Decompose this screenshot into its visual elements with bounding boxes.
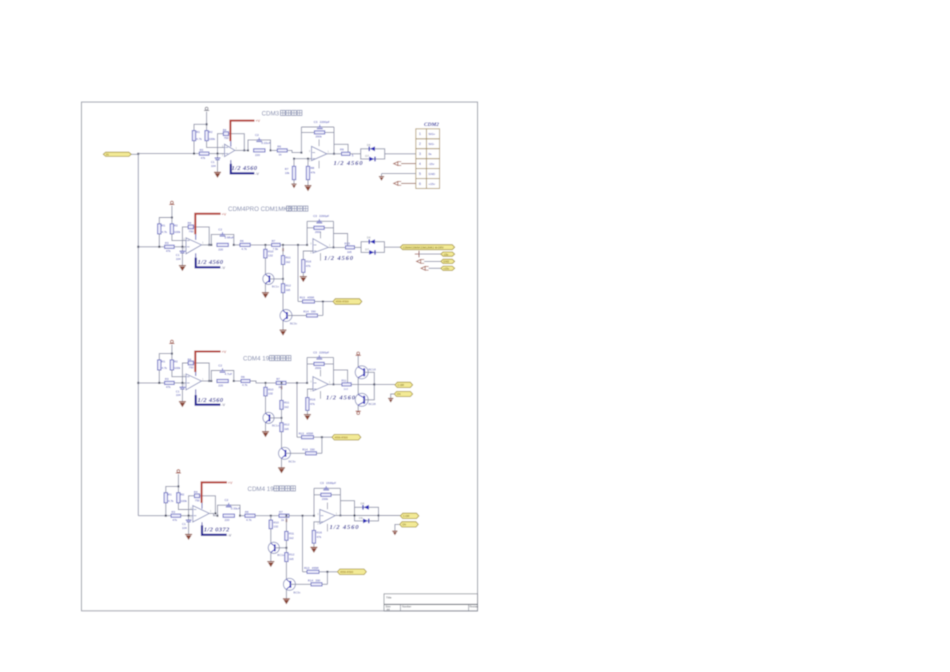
svg-text:4556-R500: 4556-R500: [336, 300, 350, 304]
svg-text:R16: R16: [317, 530, 323, 534]
node RC loop landing section3: [233, 380, 235, 382]
svg-text:CDM2: CDM2: [424, 122, 439, 128]
wire Q1 base section4: [275, 547, 287, 549]
diode clamp box section4: [355, 507, 379, 521]
wire bus corner to section4 rail: [138, 515, 171, 517]
svg-text:1k2: 1k2: [286, 260, 291, 264]
wire feedback2 res line section4: [314, 494, 340, 496]
wire rail across section4: [255, 515, 279, 517]
node input bus junction: [137, 153, 139, 155]
svg-text:1k5: 1k5: [286, 288, 291, 292]
svg-text:1k2: 1k2: [289, 536, 294, 540]
wire feedback2 right vertical section2: [333, 221, 335, 247]
ground gain network section3: [304, 414, 311, 420]
svg-text:R2: R2: [209, 130, 213, 134]
wire R15 to diode box section2: [355, 246, 362, 248]
wire rail into op-amp section2: [174, 246, 186, 248]
node divider left section1: [293, 158, 295, 160]
wire op-amp2 output to R15 section2: [328, 246, 345, 248]
svg-text:0.22uF: 0.22uF: [261, 141, 271, 145]
svg-text:47k: 47k: [166, 249, 171, 253]
svg-text:R16: R16: [306, 260, 312, 264]
capacitor C3 2200pF section1: [317, 125, 323, 129]
wire RC to R6 section1: [271, 149, 278, 151]
svg-text:BC3x: BC3x: [293, 590, 301, 594]
wire port2 to ground section3: [391, 394, 395, 398]
wire feedback2 left vertical section2: [306, 221, 308, 245]
port C-DRIVE section3: [395, 382, 413, 387]
svg-text:R15: R15: [345, 242, 351, 246]
wire V+ pin stub section3: [195, 372, 197, 376]
op-amp U1A section1: [222, 144, 238, 157]
node R1 rail junction section1: [193, 153, 195, 155]
svg-text:R3: R3: [200, 148, 204, 152]
node mid chain section2: [282, 244, 284, 246]
svg-text:455R: 455R: [312, 566, 319, 570]
svg-text:R16: R16: [310, 398, 316, 402]
wire input port to bus: [131, 153, 138, 156]
connector CDM2 table: [416, 129, 440, 189]
resistor R9 section1: [342, 152, 351, 155]
resistor R12 1k5 section4: [285, 553, 288, 562]
ground R8 section1: [305, 185, 312, 191]
svg-text:BC1x: BC1x: [272, 423, 280, 427]
ground gain network section2: [300, 276, 307, 282]
node feedback tap section1: [217, 153, 219, 155]
wire feedback2 res line section2: [307, 227, 333, 229]
svg-text:6: 6: [419, 182, 421, 186]
wire rail across section2: [250, 244, 271, 246]
svg-text:4.7k: 4.7k: [162, 366, 168, 370]
resistor R5 section3: [217, 379, 228, 382]
wire power stem section2: [171, 206, 173, 224]
svg-text:C3: C3: [313, 350, 317, 354]
wire +V red supply section3: [195, 352, 220, 373]
wire R1 bottom to input rail section1: [193, 141, 195, 154]
svg-text:220: 220: [255, 153, 260, 157]
ground gain network section4: [310, 547, 317, 553]
transistor Q1 BC1xx section4: [268, 542, 279, 553]
svg-text:GND: GND: [428, 172, 436, 176]
svg-text:750: 750: [224, 136, 229, 140]
svg-text:R7: R7: [279, 510, 283, 514]
svg-text:C3: C3: [313, 214, 317, 218]
op-amp U1B section1: [309, 146, 330, 162]
node RC loop junction section2: [210, 244, 212, 246]
diode clamp box section2: [361, 242, 384, 253]
ground under C1 section1: [214, 172, 221, 178]
svg-text:R9: R9: [340, 148, 344, 152]
resistor R1 4.7k section2: [158, 224, 161, 234]
wire feedback2 right vertical section4: [339, 488, 341, 515]
wire R1 top to R2 stem section1: [194, 124, 207, 130]
wire base node down section4: [285, 548, 287, 553]
svg-text:5: 5: [419, 172, 421, 176]
resistor R14b 330 section2: [307, 314, 318, 317]
svg-text:R2: R2: [174, 360, 178, 364]
node op-amp2 output junction section3: [333, 383, 335, 385]
op-amp U1A section4: [190, 506, 212, 522]
resistor R7b 1k section3: [276, 381, 286, 384]
wire +V red supply section4: [202, 482, 227, 503]
svg-text:4.7k: 4.7k: [241, 247, 247, 251]
wire Q1 emitter section2: [264, 284, 266, 292]
node op-amp2 input junction section3: [306, 382, 308, 384]
svg-text:1k0: 1k0: [343, 387, 348, 391]
wire R7 to ground section1: [293, 180, 295, 184]
svg-text:-V: -V: [221, 266, 225, 270]
resistor R12 1k5 section3: [280, 423, 283, 432]
svg-text:-15v: -15v: [443, 252, 449, 256]
svg-text:47k: 47k: [306, 264, 311, 268]
node R2 top section1: [206, 123, 208, 125]
resistor R3 47k section2: [165, 245, 175, 248]
capacitor C1 104 section1: [217, 154, 219, 158]
svg-text:1/2 4560: 1/2 4560: [334, 160, 364, 167]
resistor R6 4.7k section2: [240, 243, 250, 246]
svg-text:CDM4 19: CDM4 19: [248, 486, 275, 493]
node R1 rail junction section2: [158, 246, 160, 248]
node op-amp2 input junction section1: [300, 152, 302, 154]
svg-text:Revisio: Revisio: [470, 605, 479, 609]
wire gnd stub section1: [381, 174, 383, 176]
capacitor C2 0.22uF section1: [256, 138, 262, 142]
svg-text:1/2 4560: 1/2 4560: [324, 255, 354, 262]
svg-text:100k: 100k: [209, 137, 216, 141]
wire R12 to Q2 section3: [281, 432, 283, 448]
wire V+ pin stub section4: [201, 503, 203, 509]
wire RC loop section1: [248, 140, 271, 151]
wire mid chain upper section3: [281, 383, 283, 401]
node port tap section2: [322, 301, 324, 303]
node push-pull output section3: [373, 383, 375, 385]
resistor R12 1k5 section2: [281, 284, 284, 293]
svg-text:1/2 4560: 1/2 4560: [330, 524, 360, 531]
svg-text:R6: R6: [277, 145, 281, 149]
svg-text:7.5k: 7.5k: [273, 247, 279, 251]
wire R330 pins section2: [318, 315, 323, 317]
resistor R8 200k section1: [314, 131, 324, 134]
wire push-pull collector chain section3: [357, 355, 359, 411]
wire R1 bottom to input rail section2: [158, 234, 160, 247]
svg-text:47k: 47k: [201, 156, 206, 160]
wire Q2 emitter section3: [281, 459, 283, 468]
node left chain section2: [264, 244, 266, 246]
svg-text:220: 220: [218, 383, 223, 387]
svg-text:+V: +V: [256, 119, 261, 123]
svg-text:132: 132: [273, 524, 278, 528]
wire diode box to connector section1: [385, 153, 416, 155]
svg-text:SIG+: SIG+: [428, 132, 435, 136]
transistor Q2 BC3xx section2: [280, 310, 292, 322]
node R1 rail junction section3: [158, 382, 160, 384]
diode clamp box section1: [361, 149, 385, 159]
svg-text:132: 132: [268, 254, 273, 258]
svg-text:BC18: BC18: [369, 367, 377, 371]
transistor Q4 BC28 section3: [355, 393, 368, 406]
wire feedback2 cap line section3: [307, 356, 333, 358]
resistor R14b 330 section3: [306, 452, 317, 455]
node feedback landing section3: [208, 380, 210, 382]
wire base node down section2: [282, 279, 284, 284]
svg-text:R13: R13: [299, 431, 305, 435]
wire -15v to port section2: [419, 253, 441, 255]
node op-amp2 input junction section2: [306, 244, 308, 246]
svg-text:100k: 100k: [174, 230, 181, 234]
wire R2 bottom to op-amp noninv input section2: [172, 234, 186, 241]
node feedback landing section2: [208, 244, 210, 246]
node feedback tap section2: [181, 246, 183, 248]
svg-text:D7: D7: [365, 247, 369, 251]
power symbol -V section4: [176, 470, 181, 473]
node op-amp2 output junction section4: [339, 515, 341, 517]
power symbol -V section1: [204, 107, 209, 110]
wire tap down section3: [321, 437, 323, 453]
node RC loop junction section1: [247, 149, 249, 151]
node left chain section4: [270, 515, 272, 517]
resistor R2 100k section4: [177, 493, 180, 503]
svg-text:4: 4: [419, 162, 421, 166]
wire bus to section3 rail: [138, 382, 164, 384]
wire RC to R6 section2: [234, 244, 240, 246]
svg-text:0.68uF: 0.68uF: [225, 236, 235, 240]
resistor R4 750 section1: [223, 132, 228, 136]
svg-text:R7: R7: [276, 377, 280, 381]
resistor R14b 330 section4: [311, 583, 322, 586]
svg-text:+15v: +15v: [428, 182, 435, 186]
power bar -15v section2: [415, 251, 419, 257]
svg-text:R4: R4: [188, 357, 192, 361]
wire to R10 section3: [265, 383, 267, 387]
wire op-amp2 output to R11b section3: [328, 383, 342, 385]
node R1 rail junction section4: [165, 515, 167, 517]
svg-text:R2: R2: [174, 223, 178, 227]
svg-text:104: 104: [211, 164, 216, 168]
svg-text:0.33uF: 0.33uF: [231, 507, 241, 511]
wire Q1 emitter section4: [270, 553, 272, 561]
wire feedback2 cap line section4: [314, 487, 340, 489]
node feedback tap section4: [188, 515, 190, 517]
resistor R7b 7.5k section2: [272, 243, 281, 246]
svg-text:132: 132: [268, 392, 273, 396]
wire R330 to Q2 base section3: [286, 452, 306, 454]
port CDM4 CDM9 CDM12MK2 M-DRIVE section2: [400, 245, 455, 250]
port -15v section2: [441, 252, 455, 256]
svg-text:2200pF: 2200pF: [319, 350, 329, 354]
resistor R11 1k2 section4: [285, 531, 288, 540]
diode D7 section2: [369, 250, 375, 255]
svg-text:104: 104: [176, 393, 181, 397]
svg-text:200k: 200k: [322, 497, 329, 501]
svg-text:-15v: -15v: [428, 162, 434, 166]
op-amp U1B section4: [317, 509, 338, 525]
svg-text:R6: R6: [241, 375, 245, 379]
svg-text:+V: +V: [222, 350, 227, 354]
resistor R4 750 section2: [188, 225, 193, 229]
wire tap down section4: [326, 572, 328, 585]
svg-text:220: 220: [225, 518, 230, 522]
svg-text:C2: C2: [218, 227, 222, 231]
wire feedback2 left vertical section1: [300, 127, 302, 153]
svg-text:R11: R11: [341, 379, 346, 383]
svg-text:R7: R7: [272, 239, 276, 243]
wire push-pull base tie section3: [364, 372, 374, 400]
title block: [384, 594, 479, 612]
wire R10 to Q1 section3: [265, 396, 267, 413]
svg-text:R13: R13: [304, 566, 310, 570]
svg-text:330: 330: [310, 447, 315, 451]
wire feedback2 cap line section1: [301, 126, 334, 128]
wire mid chain upper section4: [285, 516, 287, 532]
ground Q2 section4: [283, 598, 290, 604]
wire power stem section1: [206, 112, 208, 131]
diode D7 section1: [369, 157, 375, 162]
wire port feed vertical section2: [297, 245, 299, 302]
diode D9 section4: [363, 519, 369, 524]
svg-text:CDM3: CDM3: [262, 111, 280, 118]
transistor Q1 BC1xx section3: [263, 412, 274, 423]
svg-text:GND: GND: [443, 260, 449, 264]
svg-text:CDM4/CDM9/CDM12MK2 M-DRV: CDM4/CDM9/CDM12MK2 M-DRV: [403, 245, 444, 249]
svg-text:CN: CN: [397, 392, 401, 396]
node R2 top section4: [177, 485, 179, 487]
wire inv input to gain resistor section3: [307, 389, 313, 398]
wire R10 to Q1 section2: [264, 258, 266, 274]
wire R1 bottom to input rail section4: [165, 503, 167, 516]
node Q1 base junction section2: [282, 278, 284, 280]
svg-text:D7: D7: [365, 154, 369, 158]
svg-text:IN: IN: [106, 153, 109, 157]
node mid chain section3: [281, 382, 283, 384]
node RC loop junction section3: [210, 380, 212, 382]
svg-text:BC1x: BC1x: [272, 284, 280, 288]
wire -V pin section3: [195, 389, 197, 404]
resistor R3 47k section1: [199, 152, 209, 155]
wire rail into op-amp section4: [181, 515, 193, 517]
wire rail into op-amp section3: [174, 382, 186, 384]
svg-text:R14: R14: [308, 578, 314, 582]
ground Q2 section3: [278, 467, 285, 473]
svg-text:1/2 4560: 1/2 4560: [326, 395, 356, 402]
wire R330 pins section4: [322, 583, 327, 585]
wire compensation branch section2: [334, 234, 348, 248]
svg-text:1k5: 1k5: [284, 427, 289, 431]
wire R1 top to R2 stem section3: [159, 354, 172, 360]
svg-text:R3: R3: [171, 510, 175, 514]
wire +V red supply section2: [195, 214, 220, 235]
svg-text:R1: R1: [196, 130, 200, 134]
svg-text:750: 750: [189, 229, 194, 233]
ground Q1 section2: [262, 292, 269, 298]
wire input bus vertical: [137, 154, 139, 516]
node RC loop landing section1: [270, 149, 272, 151]
wire Q2 emitter section4: [285, 590, 287, 599]
wire inv input divider section1: [294, 158, 312, 160]
wire diode box to port section4: [379, 515, 401, 517]
node feedback tap section3: [181, 382, 183, 384]
node R2 top section3: [171, 353, 173, 355]
node port feed section2: [297, 244, 299, 246]
power symbol +V push-pull section3: [356, 352, 361, 355]
wire R330 to Q2 base section4: [290, 583, 311, 585]
node Q1 base junction section3: [281, 417, 283, 419]
svg-text:+V: +V: [222, 212, 227, 216]
wire R12 to Q2 section2: [282, 293, 284, 310]
port CN section3: [394, 391, 413, 396]
node mid chain section4: [285, 515, 287, 517]
op-amp U1A section2: [183, 238, 204, 254]
resistor R13 455R section3: [297, 436, 302, 438]
wire op-amp2 power pin stubs section1: [318, 139, 320, 146]
diode D6 section1: [369, 146, 375, 151]
capacitor C3 1500pF section4: [323, 486, 329, 490]
svg-text:R4: R4: [188, 221, 192, 225]
svg-text:R14: R14: [303, 310, 309, 314]
wire feedback2 right vertical section1: [333, 127, 335, 154]
wire gnd to port section2: [424, 260, 441, 262]
resistor R8b 47k section1: [307, 159, 309, 167]
resistor R13 455R section2: [298, 301, 303, 303]
svg-text:-V: -V: [228, 534, 232, 538]
wire RC to R6 section3: [234, 380, 241, 382]
wire tap down section2: [322, 302, 324, 316]
capacitor C1 104 section4: [188, 516, 190, 520]
resistor R16 47k section4: [312, 530, 315, 543]
svg-text:4.7k: 4.7k: [196, 137, 202, 141]
svg-text:C2: C2: [218, 363, 222, 367]
node feedback landing section4: [214, 512, 216, 514]
wire R330 to Q2 base section2: [287, 315, 307, 317]
ground Q1 section4: [267, 561, 274, 567]
wire op-amp2 output to diode box section4: [335, 515, 354, 517]
wire feedback2 cap line section2: [307, 220, 333, 222]
svg-text:R8: R8: [311, 166, 315, 170]
wire inv input to gain resistor section2: [303, 251, 313, 260]
resistor R8 200k section3: [314, 362, 324, 365]
wire op-amp1 output section1: [235, 149, 248, 151]
diode D6 section2: [369, 239, 375, 244]
wire feedback loop section4: [189, 496, 216, 516]
wire R7b to op-amp2 section3: [286, 382, 307, 384]
wire R13 to port section4: [319, 571, 337, 573]
resistor R4 750 section4: [194, 494, 199, 498]
port GND section2: [441, 259, 455, 263]
wire to R10 section4: [270, 516, 272, 520]
svg-text:455R: 455R: [306, 431, 313, 435]
power arrow +15v section2: [421, 266, 429, 270]
wire connector pin5 gnd: [382, 173, 416, 175]
svg-text:100k: 100k: [174, 366, 181, 370]
ground R7 section1: [291, 184, 296, 189]
svg-text:BC28: BC28: [369, 402, 377, 406]
svg-text:R4: R4: [223, 128, 227, 132]
wire compensation branch section4: [340, 501, 354, 516]
wire -V pin section1: [230, 160, 232, 173]
svg-text:47k: 47k: [317, 535, 322, 539]
node RC loop landing section2: [233, 244, 235, 246]
wire -V navy supply section1: [231, 164, 255, 174]
resistor R11 1k2 section2: [281, 256, 284, 265]
node diode box right section4: [378, 515, 380, 517]
svg-text:0s: 0s: [428, 152, 432, 156]
node port feed section3: [296, 382, 298, 384]
resistor R10 132 section3: [264, 387, 267, 396]
svg-text:R1: R1: [162, 223, 166, 227]
wire R1 top to R2 stem section4: [166, 486, 179, 492]
wire Q2 emitter section2: [282, 321, 284, 330]
node bus to section3: [137, 382, 139, 384]
resistor R16 47k section3: [306, 398, 309, 411]
